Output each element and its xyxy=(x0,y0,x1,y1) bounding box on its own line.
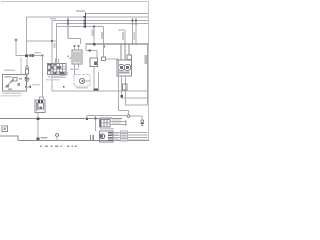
grid stubs xyxy=(55,59,57,64)
border bottom tab xyxy=(0,136,18,140)
wire H y=97.8 xyxy=(122,97,148,99)
terminator xyxy=(25,78,30,80)
wire H y=91 long xyxy=(52,90,148,92)
wire H y=14 xyxy=(86,13,149,15)
flasher unit F2 xyxy=(35,100,45,113)
right return wire xyxy=(147,44,149,105)
junction dot xyxy=(25,54,28,57)
page ref box 13 xyxy=(2,126,7,132)
label above bus xyxy=(76,10,85,12)
relay box K1 xyxy=(3,75,27,92)
wire V x=103.5 upper xyxy=(103,27,105,45)
dark dot left of pump box xyxy=(63,86,65,88)
junction dots x=68 xyxy=(67,20,69,22)
terminal circle near bottom xyxy=(56,134,59,137)
wire V x=86 below rail xyxy=(85,44,87,51)
connector block C1 xyxy=(100,120,111,128)
border right xyxy=(148,2,150,142)
stub H y=30.2 xyxy=(118,29,125,31)
wire V x=94 upper xyxy=(93,27,95,45)
dashed pump box P1 xyxy=(74,75,90,87)
label B-21 xyxy=(41,137,48,139)
wire V x=16 xyxy=(15,41,17,56)
small box on x=129 xyxy=(127,55,132,60)
motor unit M1 xyxy=(117,60,132,76)
relay internals xyxy=(6,79,14,88)
border bottom xyxy=(18,140,149,142)
wire H y=17 xyxy=(27,16,149,18)
wire V x=98.5 xyxy=(98,72,100,91)
wire H y=104.8 xyxy=(126,104,148,106)
component on return wire xyxy=(145,55,149,64)
splice bus S1 xyxy=(85,13,87,29)
heater box H1 xyxy=(72,50,82,64)
label 35F xyxy=(122,32,124,40)
wire label tags xyxy=(121,131,128,141)
wire below flasher xyxy=(37,113,39,139)
wire H y=110.5 xyxy=(118,110,128,112)
relay pin wires xyxy=(27,77,30,79)
text block labels center xyxy=(52,72,68,74)
junction xyxy=(120,95,123,98)
C2 wires xyxy=(113,131,148,133)
label under relay xyxy=(3,93,22,95)
junction dots on bus xyxy=(37,117,40,120)
main dark rail y=44 xyxy=(86,43,149,45)
label above xyxy=(34,52,41,54)
wire H y=26.5 xyxy=(57,26,104,28)
wire H y=38.5 xyxy=(68,38,81,40)
wire to terminal T2 xyxy=(130,115,142,117)
wire V x=95.5 xyxy=(95,116,97,132)
text above left of bus xyxy=(1,125,5,127)
wire V x=118.3 long xyxy=(117,59,119,111)
wire V x=87 xyxy=(86,116,88,119)
junction dot (94,26.5) xyxy=(93,26,95,28)
Y split xyxy=(40,96,44,101)
wire V x=68 xyxy=(67,18,69,39)
wire V x=128.5 xyxy=(128,111,130,115)
connector block C2 xyxy=(100,131,114,142)
footer text xyxy=(40,145,77,146)
faint text top-left of rail xyxy=(50,18,56,19)
wire V x=56.5 xyxy=(56,24,58,64)
inline connector xyxy=(30,54,32,57)
wire H y=41 xyxy=(27,40,57,42)
junction tick x=68 xyxy=(67,55,69,57)
wire H y=115.5 xyxy=(87,115,127,117)
wire V x=21 xyxy=(20,58,22,75)
wire H y=55.5 xyxy=(16,55,43,57)
ground bus y=118.5 xyxy=(0,118,122,120)
wire V x=125 xyxy=(124,30,126,44)
junction grid J/B xyxy=(48,64,67,75)
ground under T2 xyxy=(141,122,144,124)
label xyxy=(92,30,94,37)
junction dot (95.5,118.5) xyxy=(95,118,97,120)
label below grid xyxy=(48,76,59,78)
junction dots y=23.5 xyxy=(132,23,134,25)
wire H y=23.5 xyxy=(57,23,149,25)
stubs below rail x=121/125/129 xyxy=(120,44,122,60)
junction blob on y=91 xyxy=(94,89,100,92)
border top xyxy=(1,1,149,3)
junction dot xyxy=(42,55,44,57)
C2 pin text xyxy=(114,132,119,133)
label above C1 xyxy=(100,117,112,119)
stubs above heater xyxy=(74,46,76,51)
wire H y=58.8 xyxy=(106,58,119,60)
junction arrows on bus xyxy=(84,16,86,18)
label above C2 xyxy=(100,128,114,130)
label xyxy=(101,32,103,39)
junction blob (89.5,50.5) xyxy=(89,50,92,52)
label below heater xyxy=(70,69,79,71)
label A-10 xyxy=(4,69,15,71)
labels xyxy=(133,32,135,40)
junction on rail at x=94 xyxy=(93,43,96,45)
page number 11 xyxy=(90,135,91,140)
fuse F1 xyxy=(26,57,28,66)
stubs below heater xyxy=(74,64,76,75)
junction dots xyxy=(131,20,133,22)
flasher feed: junction on y55 line xyxy=(42,56,44,96)
lamp terminal circle xyxy=(127,115,130,118)
arrow into J/B xyxy=(69,57,71,58)
terminal dot A xyxy=(15,39,18,42)
junction dot xyxy=(51,40,53,42)
wire V x=132.5 xyxy=(132,18,134,44)
small box on x=125.5 xyxy=(123,84,128,90)
label xyxy=(54,43,56,48)
wire H y=20.5 xyxy=(52,20,149,22)
wire V x=52 xyxy=(51,21,53,92)
wires below motor xyxy=(121,76,123,98)
stub below rail x=104 xyxy=(103,44,105,47)
C1 wires xyxy=(110,121,126,123)
wire V x=136 xyxy=(135,18,137,44)
ground blob bottom xyxy=(36,137,39,140)
small box x=103.5 low xyxy=(103,44,105,57)
wire V x=80.5 xyxy=(80,39,82,45)
wire V x=26.5 xyxy=(26,17,28,56)
terminal circle T2 xyxy=(141,120,144,123)
